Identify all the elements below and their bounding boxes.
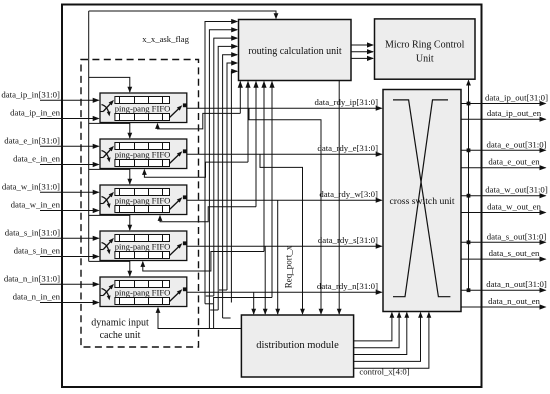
- wire output data_s_out[31:0]: [461, 231, 547, 245]
- svg-text:ping-pang FIFO: ping-pang FIFO: [115, 103, 171, 113]
- net data_rdy_w[3:0] wire FIFO3 to cross switch: [187, 189, 383, 203]
- wire routing to MRCU 3: [351, 57, 373, 59]
- wire write-control into FIFO1 top: [89, 77, 133, 92]
- junction data_w_out[31:0] to MRCU feedback: [467, 194, 471, 198]
- ping-pang FIFO U_F2: [100, 139, 187, 169]
- net data_rdy_s[31:0] wire FIFO4 to cross switch: [187, 235, 383, 249]
- wire FIFO status to routing calculation unit 4: [210, 44, 238, 310]
- cross switch X symbol stroke 1: [393, 100, 450, 297]
- wire FIFO status to routing calculation unit 7: [231, 69, 238, 303]
- routing calculation unit U_RC: [239, 20, 352, 81]
- svg-text:ping-pang FIFO: ping-pang FIFO: [115, 149, 171, 159]
- wire tap data_rdy_e to distribution: [260, 154, 305, 315]
- wire output data_n_out[31:0]: [461, 279, 547, 293]
- svg-text:Unit: Unit: [416, 54, 434, 65]
- svg-text:data_w_in_en: data_w_in_en: [11, 200, 61, 210]
- svg-text:data_n_out[31:0]: data_n_out[31:0]: [486, 279, 547, 289]
- svg-text:data_w_in[31:0]: data_w_in[31:0]: [2, 181, 60, 191]
- wire tap data_rdy_w to distribution: [275, 200, 280, 315]
- net data_rdy_e[31:0] wire FIFO2 to cross switch: [187, 143, 383, 157]
- wire output data_s_out_en: [461, 248, 547, 262]
- cross switch X symbol stroke 2: [393, 100, 448, 297]
- junction data_ip_out[31:0] to MRCU feedback: [467, 102, 471, 106]
- svg-text:data_rdy_ip[31:0]: data_rdy_ip[31:0]: [314, 97, 378, 107]
- wire input data_ip_in_en: [10, 108, 100, 122]
- wire tap data_rdy_ip to distribution: [249, 108, 323, 315]
- dynamic input cache unit (dashed box): [81, 60, 199, 348]
- svg-text:data_rdy_s[31:0]: data_rdy_s[31:0]: [318, 235, 378, 245]
- svg-text:ping-pang FIFO: ping-pang FIFO: [115, 195, 171, 205]
- wire input data_e_in_en: [13, 154, 100, 168]
- ping-pang FIFO U_F5: [100, 277, 187, 307]
- svg-text:distribution module: distribution module: [256, 340, 339, 351]
- net data_rdy_n[31:0] wire FIFO5 to cross switch: [187, 281, 383, 295]
- trunk wire from flag down left side of cache unit: [88, 11, 90, 261]
- ping-pang FIFO U_F4: [100, 231, 187, 261]
- wire write-control into FIFO5 top: [89, 261, 133, 276]
- wire FIFO status to routing calculation unit 5: [223, 52, 239, 318]
- svg-text:ping-pang FIFO: ping-pang FIFO: [115, 241, 171, 251]
- svg-text:data_rdy_w[3:0]: data_rdy_w[3:0]: [319, 189, 378, 199]
- wire output data_w_out[31:0]: [461, 185, 548, 199]
- wire write-control into FIFO3 top: [89, 169, 133, 184]
- wire control_x bit 0 distribution to cross switch: [354, 312, 395, 341]
- wire output data_ip_out_en: [461, 108, 547, 122]
- svg-text:data_ip_out_en: data_ip_out_en: [487, 108, 542, 118]
- wire output data_n_out_en: [461, 296, 547, 310]
- svg-text:data_e_out_en: data_e_out_en: [488, 157, 540, 167]
- wire control_x bit 4 distribution to cross switch: [354, 312, 432, 368]
- svg-text:data_e_out[31:0]: data_e_out[31:0]: [486, 139, 546, 149]
- svg-text:cache unit: cache unit: [100, 330, 141, 341]
- wire routing to MRCU 2: [351, 51, 373, 53]
- wire routing bottom port 5: [214, 81, 275, 329]
- wire output data_e_out_en: [461, 157, 547, 171]
- svg-text:dynamic input: dynamic input: [91, 318, 149, 329]
- wire control_x bit 1 distribution to cross switch: [354, 312, 402, 348]
- svg-text:data_ip_in[31:0]: data_ip_in[31:0]: [1, 89, 60, 99]
- wire write-control into FIFO4 top: [89, 215, 133, 230]
- Micro Ring Control Unit U_MR: [375, 19, 476, 79]
- wire FIFO status to routing calculation unit 6: [219, 60, 238, 290]
- svg-text:routing calculation unit: routing calculation unit: [248, 46, 342, 57]
- svg-text:control_x[4:0]: control_x[4:0]: [359, 367, 409, 377]
- wire FIFO5 read feed / distribution left: [156, 307, 242, 329]
- svg-text:data_ip_out[31:0]: data_ip_out[31:0]: [485, 93, 548, 103]
- wire write-control into FIFO2 top: [89, 123, 133, 138]
- net Req_port_x wire routing to distribution: [337, 81, 342, 315]
- wire output data_w_out_en: [461, 202, 547, 216]
- wire FIFO status to routing calculation unit 3: [206, 36, 238, 297]
- svg-text:data_ip_in_en: data_ip_in_en: [10, 108, 60, 118]
- svg-text:data_w_out_en: data_w_out_en: [487, 202, 541, 212]
- svg-text:data_s_in_en: data_s_in_en: [14, 246, 61, 256]
- svg-text:ping-pang FIFO: ping-pang FIFO: [115, 287, 171, 297]
- svg-text:x_x_ask_flag: x_x_ask_flag: [142, 34, 189, 44]
- wire input data_s_in_en: [14, 246, 100, 260]
- wire control_x bit 2 distribution to cross switch: [354, 312, 410, 355]
- wire tap data_rdy_n to distribution: [251, 292, 256, 315]
- svg-text:data_s_out_en: data_s_out_en: [489, 248, 540, 258]
- wire input data_e_in[31:0]: [4, 135, 99, 149]
- svg-text:data_rdy_e[31:0]: data_rdy_e[31:0]: [317, 143, 378, 153]
- wire routing bottom port 1: [155, 81, 243, 129]
- wire routing bottom port 3: [158, 81, 259, 222]
- wire input data_ip_in[31:0]: [1, 89, 99, 103]
- junction data_e_out[31:0] to MRCU feedback: [467, 148, 471, 152]
- wire control_x bit 3 distribution to cross switch: [354, 312, 423, 362]
- distribution module U_DM: [241, 315, 353, 377]
- wire input data_s_in[31:0]: [5, 227, 100, 241]
- svg-text:data_n_in_en: data_n_in_en: [13, 292, 61, 302]
- junction data_n_out[31:0] to MRCU feedback: [467, 288, 471, 292]
- wire routing bottom port 2: [142, 81, 251, 177]
- wire input data_n_in_en: [13, 292, 100, 306]
- svg-text:data_rdy_n[31:0]: data_rdy_n[31:0]: [317, 281, 378, 291]
- wire output data_ip_out[31:0]: [461, 93, 548, 107]
- svg-text:Micro Ring Control: Micro Ring Control: [385, 40, 465, 51]
- wire input data_w_in_en: [11, 200, 100, 214]
- cross switch unit U_XS: [383, 90, 461, 312]
- wire FIFO status to routing calculation unit 2: [209, 27, 238, 328]
- svg-text:Req_port_x: Req_port_x: [284, 245, 294, 288]
- wire FIFO status to routing calculation unit 1: [205, 19, 238, 304]
- wire input data_n_in[31:0]: [4, 273, 100, 287]
- wire output sense to Micro Ring Control Unit: [466, 80, 471, 291]
- svg-text:data_w_out[31:0]: data_w_out[31:0]: [485, 185, 548, 195]
- wire tap data_rdy_s to distribution: [263, 246, 268, 315]
- net x_x_ask_flag wire: [89, 11, 276, 19]
- ping-pang FIFO U_F3: [100, 185, 187, 215]
- wire routing bottom port 4: [140, 81, 266, 271]
- wire output data_e_out[31:0]: [461, 139, 547, 153]
- svg-text:data_n_out_en: data_n_out_en: [488, 296, 540, 306]
- junction data_s_out[31:0] to MRCU feedback: [467, 240, 471, 244]
- svg-text:data_s_out[31:0]: data_s_out[31:0]: [487, 231, 547, 241]
- wire routing to MRCU 1: [351, 44, 373, 46]
- svg-text:data_s_in[31:0]: data_s_in[31:0]: [5, 227, 60, 237]
- svg-text:cross switch unit: cross switch unit: [389, 196, 454, 207]
- wire input data_w_in[31:0]: [2, 181, 100, 195]
- outer router enclosure box: [62, 5, 482, 388]
- svg-text:data_e_in_en: data_e_in_en: [13, 154, 60, 164]
- ping-pang FIFO U_F1: [100, 93, 187, 123]
- svg-text:data_e_in[31:0]: data_e_in[31:0]: [4, 135, 60, 145]
- net data_rdy_ip[31:0] wire FIFO1 to cross switch: [187, 97, 383, 111]
- svg-text:data_n_in[31:0]: data_n_in[31:0]: [4, 273, 60, 283]
